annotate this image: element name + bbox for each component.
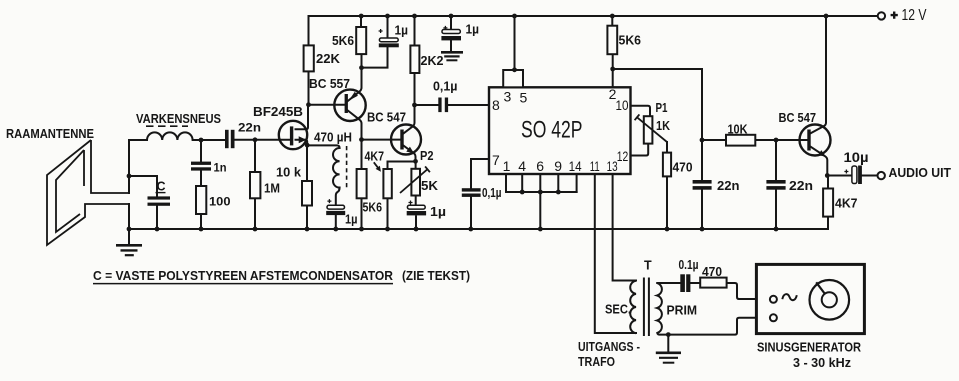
wire inductor right to 22n <box>193 139 225 141</box>
svg-text:5K6: 5K6 <box>332 34 354 48</box>
svg-text:1µ: 1µ <box>395 24 409 38</box>
wire C cap bottom lead <box>156 206 158 229</box>
wire JFET drain <box>296 105 309 130</box>
wire 22n-b to rail <box>701 190 703 229</box>
wire BC547c emitter <box>811 147 828 176</box>
generator sine symbol <box>782 294 797 300</box>
svg-text:4K7: 4K7 <box>835 197 858 211</box>
svg-text:RAAMANTENNE: RAAMANTENNE <box>6 127 94 141</box>
IC U1 SO42P body <box>489 87 631 174</box>
wire bottom ground rail <box>129 228 828 230</box>
resistor 470 at P1 <box>663 153 671 177</box>
svg-text:1µ: 1µ <box>345 212 358 226</box>
wire C cap top lead <box>156 176 158 196</box>
svg-text:(ZIE TEKST): (ZIE TEKST) <box>402 269 470 283</box>
ground at transformer <box>656 353 681 363</box>
wire IC pin9 stub <box>557 174 559 192</box>
potentiometer P1 body <box>644 116 653 143</box>
transistor Q3 BC547 <box>391 125 421 155</box>
svg-text:10µ: 10µ <box>844 150 869 165</box>
svg-text:22n: 22n <box>238 120 261 134</box>
svg-text:VARKENSNEUS: VARKENSNEUS <box>136 112 221 126</box>
resistor 5K6 top-left <box>356 27 366 54</box>
wire 1u-a bottom left to node <box>362 47 388 67</box>
wire 1u-b top <box>450 16 452 30</box>
svg-text:7: 7 <box>492 152 500 168</box>
arrowhead for 4K7 label arrow <box>376 166 381 172</box>
wire BC547c collector to +12V <box>811 16 826 133</box>
wire antenna bottom lead column <box>128 204 130 229</box>
svg-text:P1: P1 <box>656 101 668 115</box>
potentiometer P2 body <box>411 169 420 196</box>
svg-text:SO 42P: SO 42P <box>521 117 583 144</box>
wire 100 to rail <box>200 214 202 229</box>
label + of 12V <box>891 12 898 19</box>
wire 1u-a top <box>387 16 389 38</box>
wire 4K7 top corner <box>387 162 389 170</box>
svg-text:470: 470 <box>673 160 693 174</box>
wire coil bottom to 1u cap <box>336 188 340 206</box>
wire node to C cap <box>129 175 157 177</box>
resistor 10k <box>302 181 312 206</box>
svg-text:0.1µ: 0.1µ <box>679 258 699 272</box>
wire 1u-d to rail <box>415 216 417 229</box>
IC U1 top tab <box>503 70 523 87</box>
capacitor 1u electrolytic top-left <box>379 29 399 47</box>
wire right column down to 22n-b <box>701 69 703 180</box>
capacitor 10u electrolytic output <box>844 166 861 185</box>
antenna loop inner right side <box>83 150 85 186</box>
svg-text:PRIM: PRIM <box>667 303 698 317</box>
inductor 470uH adjustable core dashed line <box>346 146 348 190</box>
terminal generator upper <box>770 296 777 303</box>
wire 1u cap to rail <box>335 215 337 229</box>
wire 5K6a top to rail <box>360 16 362 27</box>
wire P2 bottom to 1u <box>415 196 417 206</box>
wire 22n-c drop <box>775 140 777 180</box>
svg-text:5K6: 5K6 <box>363 201 383 215</box>
svg-text:0,1µ: 0,1µ <box>433 79 458 93</box>
wire gate from 22n <box>235 139 291 141</box>
svg-text:14: 14 <box>569 158 582 174</box>
svg-text:P2: P2 <box>420 149 434 163</box>
svg-text:1K: 1K <box>656 119 670 133</box>
wire pin11 to trafo sec bottom <box>595 174 636 333</box>
svg-text:1n: 1n <box>214 160 227 174</box>
wire IC tab drop <box>514 16 516 70</box>
svg-text:470 µH: 470 µH <box>314 130 352 144</box>
antenna loop inner turn <box>56 150 84 232</box>
wire emitter node to 10u <box>827 175 851 177</box>
wire prim top to 0.1u <box>657 282 680 284</box>
antenna loop outer turn <box>47 140 129 245</box>
transformer T core <box>644 278 649 337</box>
resistor 22K <box>304 45 314 71</box>
wire rail drop to 22K <box>308 16 310 45</box>
svg-text:5K6: 5K6 <box>619 33 642 47</box>
svg-text:3 - 30 kHz: 3 - 30 kHz <box>793 355 851 370</box>
wire pin2 node to right <box>613 68 702 70</box>
wire P1 wiper to 470 <box>666 142 668 153</box>
box sinusgenerator <box>756 264 864 333</box>
capacitor 0,1u at pin7 plates <box>462 188 481 191</box>
wire 4K7c bottom to rail <box>827 217 829 229</box>
terminal generator lower <box>770 314 777 321</box>
transformer T primary winding <box>657 283 662 333</box>
wire 0,1u to IC pin8 <box>448 104 489 106</box>
wire IC pin4 stub <box>521 174 523 192</box>
svg-text:10 k: 10 k <box>276 166 301 180</box>
svg-text:22n: 22n <box>789 179 813 193</box>
svg-text:12: 12 <box>617 148 629 164</box>
svg-text:8: 8 <box>492 97 500 113</box>
svg-text:5K: 5K <box>421 179 438 193</box>
capacitor 1n plates <box>191 162 211 165</box>
wire 22K bottom to node <box>308 71 310 104</box>
svg-text:2K2: 2K2 <box>421 54 444 68</box>
svg-text:4K7: 4K7 <box>365 150 385 164</box>
svg-text:TRAFO: TRAFO <box>578 355 615 369</box>
wire 1u-b bottom to ground <box>450 41 452 52</box>
svg-text:BC 547: BC 547 <box>367 111 406 125</box>
svg-text:0,1µ: 0,1µ <box>482 186 502 200</box>
inductor varkensneus <box>147 132 193 140</box>
resistor 2K2 <box>410 46 419 74</box>
wire 0,1u-c to rail <box>470 197 472 229</box>
wire top +12V rail <box>309 15 878 17</box>
svg-text:100: 100 <box>209 195 231 209</box>
wire P2 top <box>415 161 417 169</box>
wire ground stub antenna <box>128 229 130 245</box>
wire inductor left <box>129 139 147 141</box>
capacitor 0,1u at pin8 plates <box>438 98 441 113</box>
svg-text:BC 557: BC 557 <box>309 77 350 91</box>
wire BC557 collector <box>348 111 362 124</box>
wire IC pin10 to P1 <box>631 106 651 117</box>
svg-text:C = VASTE POLYSTYREEN AFSTEMCO: C = VASTE POLYSTYREEN AFSTEMCONDENSATOR <box>93 269 393 283</box>
capacitor 1u electrolytic below coil <box>326 199 345 215</box>
resistor 10K horizontal <box>726 135 755 146</box>
capacitor C plates <box>148 196 171 199</box>
svg-text:SINUSGENERATOR: SINUSGENERATOR <box>757 339 862 354</box>
wire IC pin14 stub <box>576 174 578 192</box>
terminal audio uit <box>878 172 885 179</box>
svg-text:T: T <box>644 258 652 272</box>
svg-text:BF245B: BF245B <box>253 105 303 119</box>
wire 4K7 bottom to rail <box>387 198 389 229</box>
svg-text:6: 6 <box>536 158 544 174</box>
resistor 1M <box>250 172 260 198</box>
svg-text:1µ: 1µ <box>430 205 446 219</box>
wire source node down to 10k <box>306 145 308 181</box>
wire 5K6a bottom to emitter node <box>361 54 363 87</box>
wire JFET source <box>296 140 308 146</box>
transformer T secondary winding <box>630 281 636 333</box>
terminal +12V <box>878 12 885 19</box>
transistor Q1 BF245B <box>279 121 307 149</box>
svg-text:13: 13 <box>607 158 618 174</box>
wire 1n to 100 <box>200 171 202 186</box>
wire emitter node left to 4K7 <box>388 161 416 163</box>
resistor 470 at trafo <box>700 278 726 288</box>
wire pin13 to trafo sec top <box>613 174 636 281</box>
wire 22n-c to rail <box>775 190 777 229</box>
svg-text:UITGANGS -: UITGANGS - <box>578 340 640 354</box>
transistor Q2 BC557 <box>334 90 365 121</box>
wire 470a to rail <box>666 176 668 229</box>
ground antenna <box>116 245 142 255</box>
label arrow for 4K7 <box>374 162 379 168</box>
svg-text:9: 9 <box>554 158 562 174</box>
svg-text:BC 547: BC 547 <box>779 111 817 125</box>
resistor 4K7 middle <box>383 169 391 198</box>
wire IC pin1 stub <box>505 174 507 192</box>
wire emitter node to 4K7c <box>827 176 829 189</box>
ground at 1u second cap <box>441 52 463 60</box>
capacitor 22n c plates <box>766 180 785 184</box>
svg-text:3: 3 <box>504 88 512 104</box>
underline C label <box>156 192 166 194</box>
wire 10k bottom to rail <box>306 206 308 230</box>
svg-text:1: 1 <box>503 158 511 174</box>
generator dial pointer <box>816 282 825 294</box>
resistor 4K7 right <box>823 189 833 217</box>
wire 10u to audio terminal <box>862 175 878 177</box>
wire 2K2 bottom to node <box>414 73 416 105</box>
wire 2K2 top <box>414 16 416 46</box>
capacitor 0.1u at trafo plates <box>680 274 685 292</box>
resistor 5K6 right <box>607 26 617 55</box>
wire IC pin6 stub <box>539 174 541 192</box>
inductor 470uH coil <box>333 148 340 188</box>
svg-text:1M: 1M <box>264 182 280 196</box>
wire trafo ground stub <box>667 335 669 352</box>
wire 1M drop <box>254 140 256 172</box>
wire BC547b emitter <box>404 146 416 162</box>
wire IC pin7 to 0,1u <box>471 159 489 188</box>
wire BC547b base <box>362 139 401 141</box>
resistor 5K6 middle <box>357 169 367 198</box>
svg-text:12 V: 12 V <box>902 7 928 24</box>
wire node to 10K <box>702 139 726 141</box>
svg-text:10: 10 <box>616 97 629 113</box>
wire 470b to generator upper <box>727 283 770 299</box>
wire BC557 emitter <box>348 88 362 102</box>
wire BC547b collector <box>404 105 415 133</box>
svg-text:22K: 22K <box>316 52 340 66</box>
resistor 100 <box>196 186 206 214</box>
wire 1n drop <box>200 140 202 162</box>
antenna loop outer right side / top lead <box>91 140 129 193</box>
svg-text:C: C <box>157 179 166 193</box>
wire antenna column top <box>128 140 130 193</box>
wire 0.1u to 470b <box>690 282 700 284</box>
wire node to 0,1u <box>415 104 439 106</box>
wire BC557 collector to BC547 base node <box>361 124 363 170</box>
wire 5K6c bottom to IC pin2 <box>612 54 614 87</box>
potentiometer P2 arrow <box>400 169 428 193</box>
generator dial outer <box>810 280 850 320</box>
capacitor 22n input plates <box>225 130 229 148</box>
svg-text:4: 4 <box>518 158 526 174</box>
capacitor 1u electrolytic below P2 <box>407 201 426 216</box>
underline note <box>93 283 393 285</box>
capacitor 22n b plates <box>693 180 712 184</box>
wire P1 bottom to pin12 <box>631 144 649 156</box>
wire prim bottom to generator lower <box>657 318 770 335</box>
transistor Q4 BC547 output <box>800 125 831 157</box>
wire BC557 base <box>309 104 345 106</box>
dashed underline varkensneus <box>146 125 188 127</box>
svg-text:5: 5 <box>520 89 528 105</box>
svg-text:470: 470 <box>702 265 722 279</box>
svg-text:1µ: 1µ <box>466 23 480 37</box>
svg-text:11: 11 <box>590 158 600 174</box>
svg-text:AUDIO UIT: AUDIO UIT <box>889 166 952 180</box>
potentiometer P1 wiper arrow <box>374 114 667 193</box>
svg-text:22n: 22n <box>717 179 740 193</box>
wire 10K right to BC547c base <box>755 139 807 141</box>
wire 1M to rail <box>254 198 256 229</box>
wire source node to coil <box>307 145 340 148</box>
wire bus to rail <box>539 192 541 229</box>
generator dial inner knob <box>822 292 837 307</box>
svg-text:10K: 10K <box>728 122 748 136</box>
svg-text:SEC.: SEC. <box>605 302 631 316</box>
capacitor 1u electrolytic second <box>441 26 461 41</box>
wire IC ground bus <box>506 191 577 193</box>
wire 5K6b bottom to rail <box>361 198 363 229</box>
wire 5K6c top <box>611 16 613 26</box>
